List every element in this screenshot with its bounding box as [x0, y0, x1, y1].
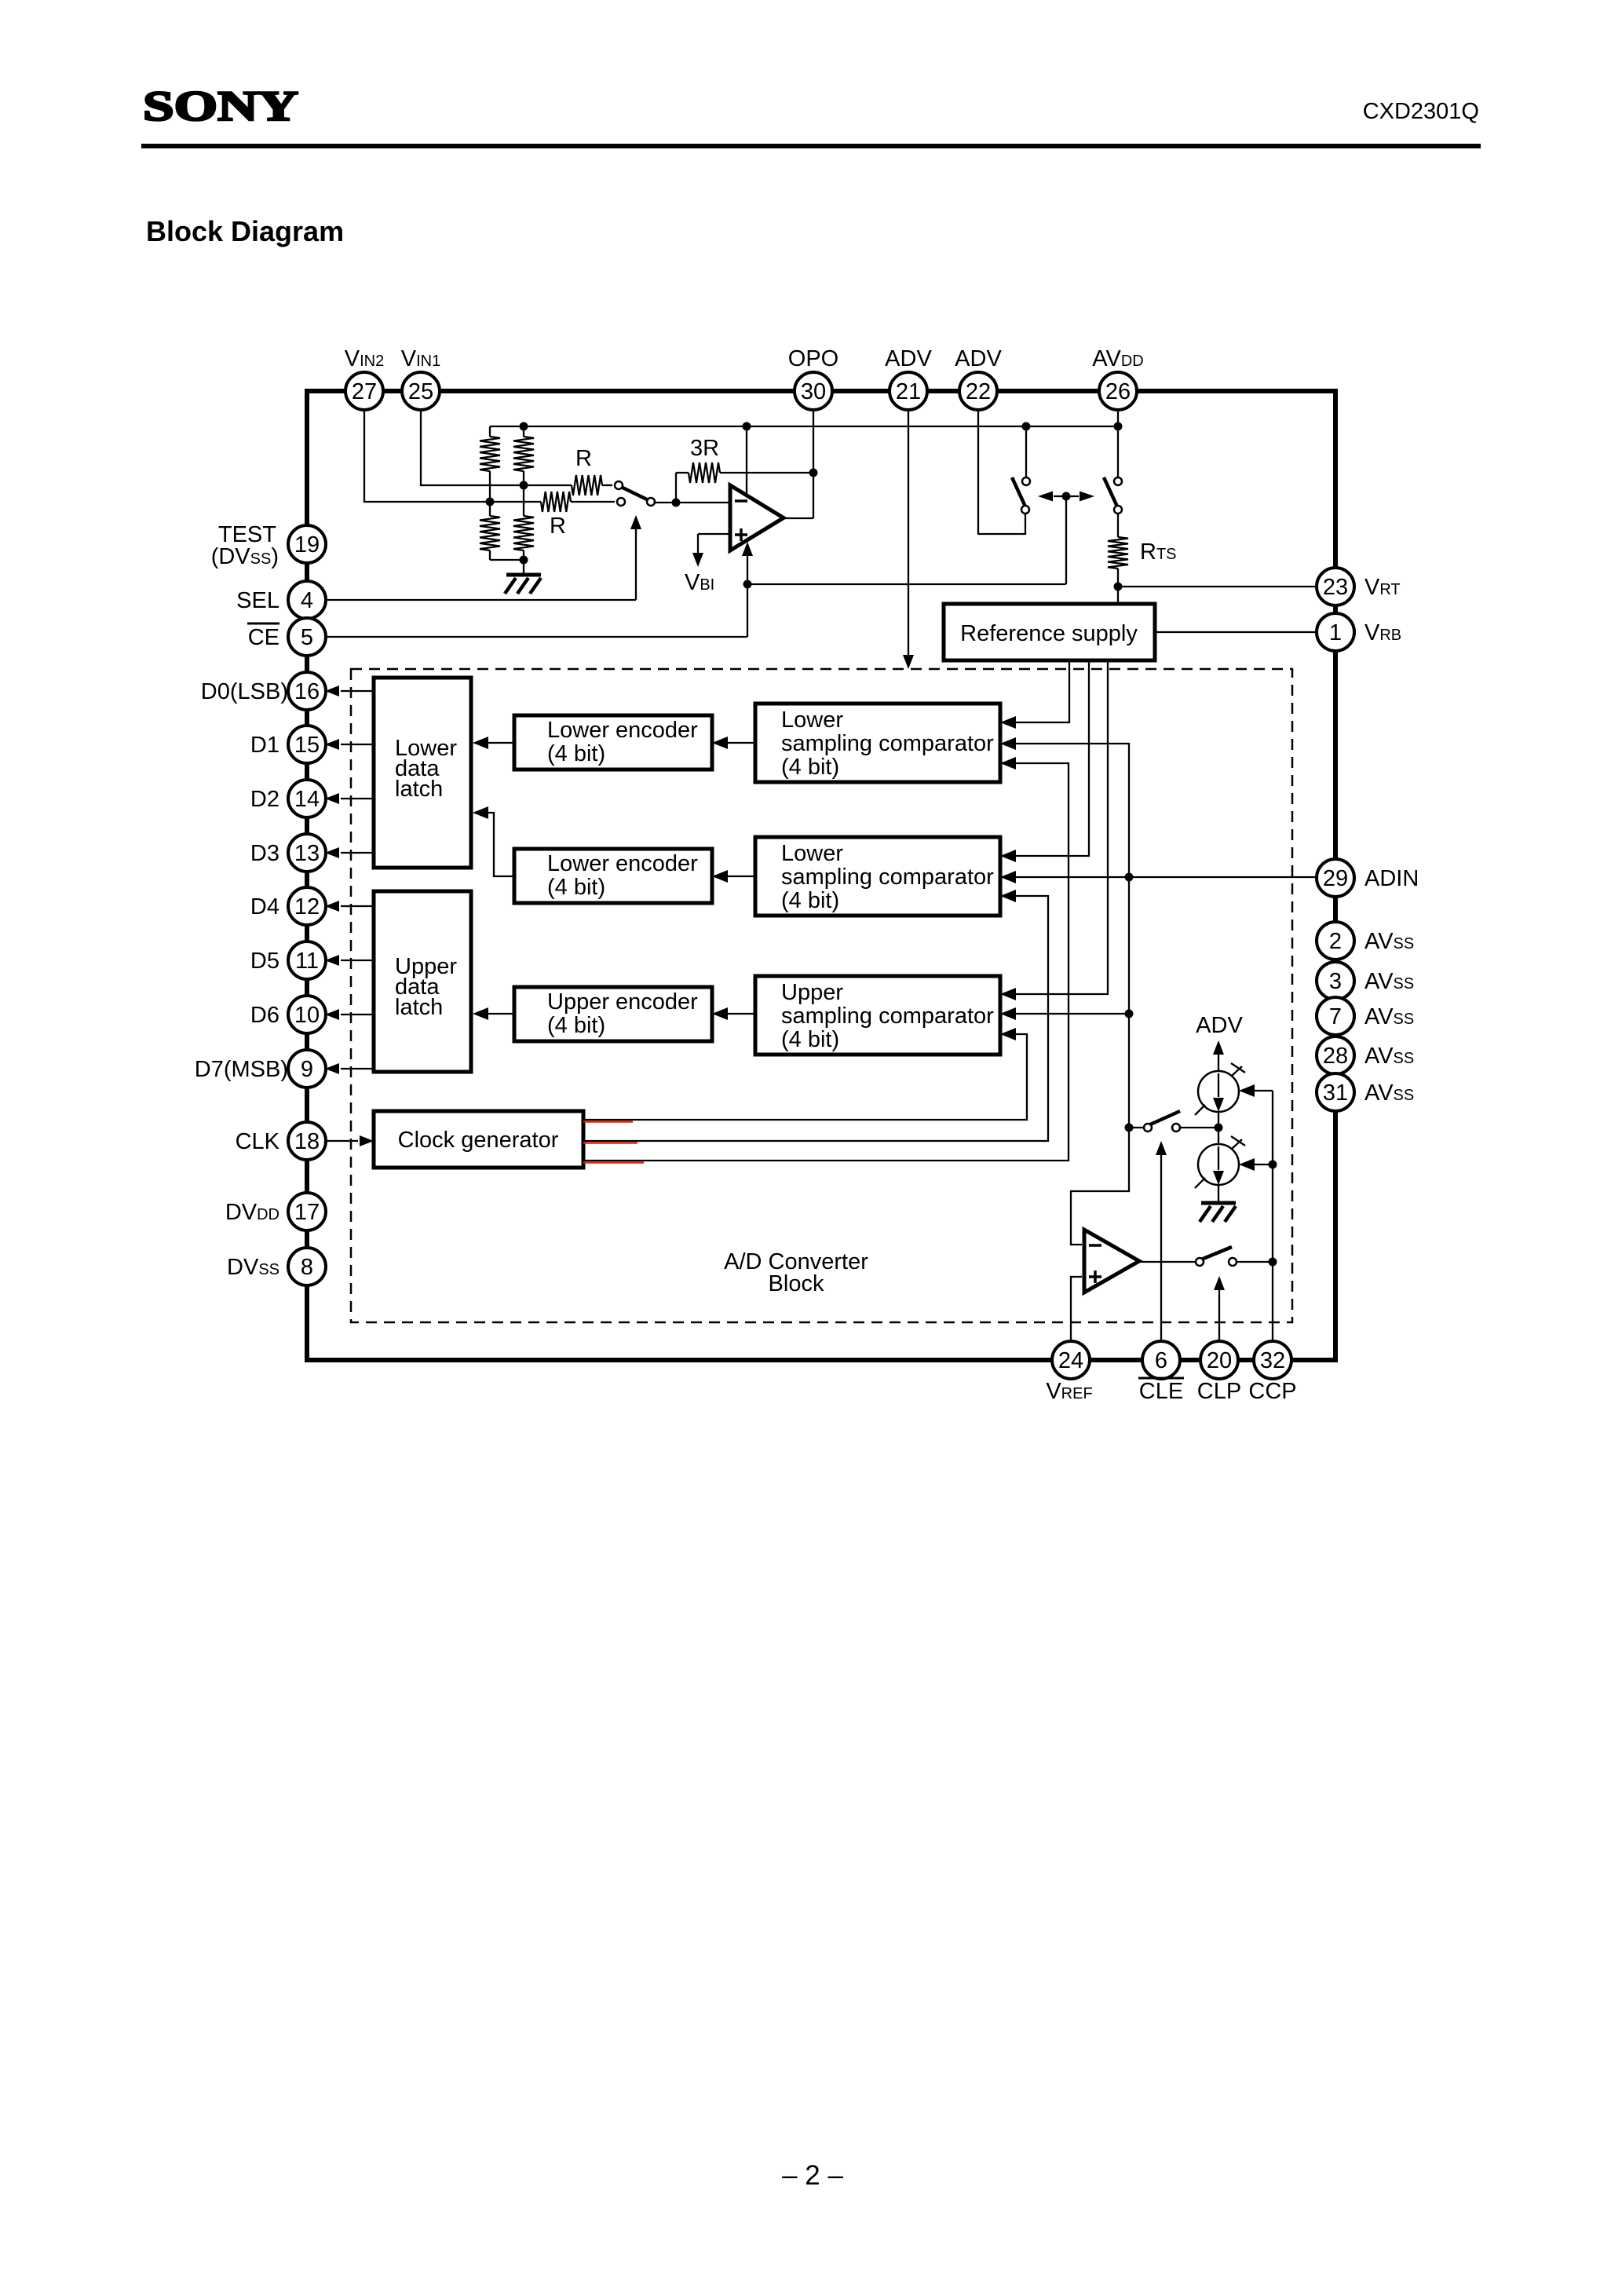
resistor 3R feedback: [676, 462, 813, 503]
pin 24 VREF: [1052, 1341, 1090, 1379]
red trace on clock line 2: [583, 1142, 637, 1144]
node: 3R feedback tap: [672, 499, 681, 507]
svg-text:Clock generator: Clock generator: [398, 1128, 559, 1153]
current source CS1: [1195, 1063, 1245, 1115]
svg-text:3R: 3R: [690, 436, 719, 461]
op-amp U2 (clamp): [1084, 1230, 1139, 1292]
node: ladder top right column: [520, 422, 528, 431]
svg-text:6: 6: [1155, 1348, 1167, 1373]
wire comparator2 to encoder2: [712, 870, 755, 883]
svg-text:21: 21: [896, 379, 921, 404]
pin 12 D4: [288, 887, 326, 925]
svg-text:(4 bit): (4 bit): [781, 1027, 839, 1052]
svg-text:2: 2: [1329, 929, 1342, 954]
clamp output switch SW5: [1196, 1247, 1273, 1266]
pin 16 D0: [288, 672, 326, 710]
node: clamp input: [1125, 1124, 1134, 1132]
pin 19 TEST: [288, 525, 326, 563]
wire upper data latch to pin D7: [325, 1063, 374, 1074]
pin 7 AVSS: [1317, 997, 1354, 1035]
wire pin18 CLK to clock generator: [326, 1135, 374, 1146]
node: VRT junction: [1114, 583, 1123, 591]
current source CS2: [1195, 1136, 1245, 1188]
Reference supply box: [944, 604, 1155, 660]
svg-text:Lower: Lower: [781, 841, 843, 866]
wire CLE pin6 control arrow: [1156, 1141, 1167, 1342]
pin 31 AVSS: [1317, 1073, 1354, 1111]
svg-text:5: 5: [301, 625, 313, 650]
node: CS2 control tap: [1269, 1161, 1277, 1169]
wire switch to op-amp inverting input: [655, 502, 730, 503]
svg-text:4: 4: [301, 588, 313, 613]
pin 32 CCP: [1254, 1341, 1291, 1379]
svg-text:19: 19: [294, 532, 320, 558]
node: OPO feedback junction: [809, 469, 818, 477]
svg-text:9: 9: [301, 1057, 313, 1082]
svg-text:24: 24: [1058, 1348, 1083, 1373]
svg-text:latch: latch: [395, 995, 443, 1020]
svg-text:12: 12: [294, 894, 320, 919]
svg-text:ADV: ADV: [955, 346, 1002, 371]
svg-text:Block Diagram: Block Diagram: [146, 215, 344, 247]
svg-text:(4 bit): (4 bit): [547, 741, 605, 766]
svg-text:20: 20: [1207, 1348, 1232, 1373]
svg-text:(4 bit): (4 bit): [781, 755, 839, 780]
pin 13 D3: [288, 834, 326, 872]
svg-text:D5: D5: [250, 949, 279, 974]
svg-text:CLE: CLE: [1139, 1379, 1183, 1404]
Lower data latch box: [374, 678, 471, 868]
svg-text:sampling comparator: sampling comparator: [781, 865, 994, 890]
svg-text:7: 7: [1329, 1004, 1342, 1029]
wire comparator1 to encoder1: [712, 737, 755, 749]
svg-text:sampling comparator: sampling comparator: [781, 731, 994, 756]
node: clamp output: [1269, 1258, 1277, 1267]
svg-text:(4 bit): (4 bit): [547, 875, 605, 900]
svg-text:Lower: Lower: [781, 707, 843, 733]
clock line 2 (to lower comparator 2): [583, 890, 1048, 1141]
wire reference output 2 to comparator2: [1000, 660, 1089, 862]
pin 4 SEL: [288, 581, 326, 619]
wire pin27 VIN2 to lower R input rail: [364, 410, 541, 502]
resistor ladder right column: [513, 426, 534, 575]
wire pin25 VIN1 to upper R input rail: [421, 410, 572, 485]
svg-text:Lower encoder: Lower encoder: [547, 718, 698, 743]
pin 5 CE: [288, 618, 326, 656]
wire CS2 to ground: [1218, 1185, 1219, 1203]
svg-text:1: 1: [1329, 620, 1342, 645]
svg-text:30: 30: [801, 379, 826, 404]
node: current source midpoint: [1215, 1124, 1223, 1132]
node: AVDD rail right end: [1114, 422, 1123, 431]
wire CS1 to CS2: [1218, 1112, 1219, 1144]
header rule: [141, 144, 1481, 148]
node: AVDD rail bias tap: [743, 422, 751, 431]
pin 10 D6: [288, 996, 326, 1033]
svg-text:Upper: Upper: [781, 980, 843, 1005]
wire reference output 1 to comparator1: [1000, 660, 1069, 729]
pin 3 AVSS: [1317, 962, 1354, 1000]
wire op-amp U1 output: [784, 517, 813, 519]
svg-text:ADV: ADV: [885, 346, 932, 371]
op-amp U1: [730, 485, 784, 550]
pin 14 D2: [288, 780, 326, 817]
wire comparator3 to encoder3: [712, 1007, 755, 1020]
pin 11 D5: [288, 941, 326, 979]
wire SEL pin4 to switch control: [326, 515, 641, 600]
wire CLP pin20 control arrow: [1214, 1276, 1225, 1342]
svg-text:27: 27: [352, 379, 377, 404]
pin 27 VIN2: [345, 372, 383, 410]
wire lower data latch to pin D3: [325, 847, 374, 858]
label TEST (DVSS): [211, 522, 279, 569]
label CE with overline: [247, 623, 279, 650]
Upper data latch box: [374, 891, 471, 1072]
svg-text:26: 26: [1105, 379, 1131, 404]
svg-text:8: 8: [301, 1255, 313, 1280]
wire encoder2 to lower data latch: [473, 806, 514, 876]
svg-text:18: 18: [294, 1129, 320, 1154]
wire encoder1 to lower data latch: [473, 737, 514, 749]
A/D converter block dashed boundary: [351, 669, 1292, 1322]
pin 20 CLP: [1200, 1341, 1238, 1379]
pin 30 OPO: [795, 372, 832, 410]
resistor R (lower, VIN2 path): [541, 492, 615, 512]
svg-text:– 2 –: – 2 –: [782, 2160, 843, 2191]
pin 29 ADIN: [1317, 859, 1354, 897]
wire reference supply to pin1 VRB: [1155, 631, 1317, 633]
wire clamp op-amp inverting input: [1071, 1128, 1129, 1245]
ADIN distribution vertical: [1000, 737, 1129, 1128]
node: SW2 top rail tap: [1022, 422, 1031, 431]
svg-text:(4 bit): (4 bit): [781, 888, 839, 913]
clock line 1 (to upper comparator): [583, 1028, 1027, 1120]
pin 1 VRB: [1317, 613, 1354, 651]
svg-text:Lower encoder: Lower encoder: [547, 851, 698, 876]
wire ADV pin21 into A/D block: [903, 410, 914, 669]
resistor R (upper, VIN1 path): [572, 475, 612, 495]
svg-text:D0(LSB): D0(LSB): [201, 679, 288, 704]
pin 25 VIN1: [402, 372, 440, 410]
pin 18 CLK: [288, 1122, 326, 1160]
wire lower data latch to pin D1: [325, 739, 374, 750]
svg-text:(4 bit): (4 bit): [547, 1013, 605, 1038]
svg-text:D4: D4: [250, 894, 279, 919]
svg-text:D3: D3: [250, 841, 279, 866]
wire pin29 ADIN to comparator2: [1000, 871, 1317, 883]
wire CS2 control input: [1239, 1158, 1273, 1171]
svg-text:SONY: SONY: [143, 82, 298, 130]
ground under CS2: [1200, 1203, 1236, 1222]
node: CE branch: [743, 580, 752, 589]
wire lower data latch to pin D2: [325, 793, 374, 804]
Lower encoder 2 box: [514, 849, 712, 903]
svg-text:Reference supply: Reference supply: [960, 621, 1138, 646]
svg-text:32: 32: [1260, 1348, 1285, 1373]
node: ADIN junction: [1125, 873, 1134, 882]
double-headed arrow (ganged switches): [1038, 492, 1094, 502]
svg-text:16: 16: [294, 679, 320, 704]
wire lower data latch to pin D0: [325, 686, 374, 696]
svg-text:D6: D6: [250, 1003, 279, 1028]
pin 15 D1: [288, 726, 326, 763]
svg-text:CE: CE: [248, 625, 279, 650]
svg-text:28: 28: [1323, 1044, 1348, 1069]
svg-text:22: 22: [966, 379, 991, 404]
power switch SW2 (ADV side): [1012, 426, 1030, 514]
svg-text:ADIN: ADIN: [1364, 866, 1419, 891]
svg-text:OPO: OPO: [788, 346, 838, 371]
svg-text:ADV: ADV: [1196, 1013, 1243, 1038]
svg-text:CXD2301Q: CXD2301Q: [1363, 99, 1479, 124]
wire encoder3 to upper data latch: [473, 1007, 514, 1020]
ADV output arrow above CS1: [1213, 1040, 1224, 1071]
pin 28 AVSS: [1317, 1036, 1354, 1074]
power switch SW3 (AVDD side) with RTS: [1104, 410, 1122, 537]
svg-text:CCP: CCP: [1248, 1379, 1296, 1404]
pin 8 DVSS: [288, 1248, 326, 1285]
node: VIN2 join left column: [486, 498, 495, 506]
wire CE pin5 to bias control: [326, 496, 1066, 637]
svg-text:D7(MSB): D7(MSB): [195, 1057, 288, 1082]
resistor ladder left column: [480, 426, 524, 560]
node: VIN1 join right column: [520, 481, 528, 490]
svg-text:D1: D1: [250, 733, 279, 758]
red trace on clock line 1: [583, 1121, 633, 1123]
pin 2 AVSS: [1317, 922, 1354, 960]
Lower encoder 1 box: [514, 715, 712, 770]
pin 6 CLE: [1142, 1341, 1180, 1379]
wire pin24 VREF to non-inverting input: [1071, 1277, 1082, 1342]
svg-text:Block: Block: [769, 1271, 824, 1296]
clamp switch SW4: [1133, 1111, 1218, 1132]
label A/D Converter Block: [724, 1249, 868, 1296]
red trace on clock line 3: [583, 1161, 644, 1164]
svg-text:10: 10: [294, 1003, 320, 1028]
svg-text:23: 23: [1323, 575, 1348, 600]
IC package outline: [307, 391, 1335, 1360]
svg-text:Upper encoder: Upper encoder: [547, 989, 698, 1015]
svg-text:14: 14: [294, 787, 320, 812]
svg-text:15: 15: [294, 733, 320, 758]
pin 23 VRT: [1317, 568, 1354, 605]
wire CCP pin32 vertical: [1272, 1091, 1273, 1342]
wire U1 non-inverting input to VBI: [692, 534, 730, 567]
svg-text:R: R: [575, 446, 592, 471]
ground under resistor ladder: [505, 575, 541, 594]
svg-text:D2: D2: [250, 787, 279, 812]
svg-text:CLK: CLK: [236, 1129, 280, 1154]
svg-text:31: 31: [1323, 1080, 1348, 1106]
Upper sampling comparator box: [755, 976, 1000, 1055]
svg-text:25: 25: [408, 379, 433, 404]
Clock generator box: [374, 1111, 583, 1168]
wire CS1 control input: [1239, 1084, 1273, 1097]
svg-text:R: R: [550, 514, 566, 539]
input select switch SW1: [615, 481, 655, 506]
Lower sampling comparator 1 box: [755, 704, 1000, 782]
svg-text:11: 11: [295, 949, 319, 974]
wire U2 output to clamp switch SW5: [1139, 1261, 1196, 1263]
pin 9 D7: [288, 1050, 326, 1088]
svg-text:29: 29: [1323, 866, 1348, 891]
svg-text:13: 13: [294, 841, 320, 866]
wire upper data latch to pin D6: [325, 1009, 374, 1020]
Lower sampling comparator 2 box: [755, 837, 1000, 916]
svg-text:sampling comparator: sampling comparator: [781, 1004, 994, 1029]
AVDD top rail: [490, 426, 1118, 427]
node: ADIN branch comparator3: [1125, 1010, 1134, 1018]
wire ADV pin22 to power switch: [978, 410, 1025, 534]
pin 17 DVDD: [288, 1193, 326, 1230]
wire pin30 OPO vertical: [813, 410, 814, 518]
wire reference output 3 to comparator3: [1000, 660, 1108, 1000]
svg-text:SEL: SEL: [236, 588, 279, 613]
pin 22 ADV: [959, 372, 997, 410]
wire upper data latch to pin D4: [325, 901, 374, 912]
svg-text:3: 3: [1329, 969, 1342, 994]
svg-text:CLP: CLP: [1197, 1379, 1241, 1404]
pin 26 AVDD: [1099, 372, 1137, 410]
wire ADIN branch to comparator3: [1000, 1007, 1129, 1020]
wire AVDD rail to U1 bias: [746, 426, 747, 496]
label CLE with overline: [1138, 1378, 1184, 1404]
node: ladder bottom join: [520, 556, 528, 565]
svg-text:17: 17: [294, 1200, 320, 1225]
wire upper data latch to pin D5: [325, 955, 374, 966]
wire to pin23 VRT: [1118, 586, 1317, 587]
node: power switch link: [1062, 492, 1071, 501]
Upper encoder box: [514, 987, 712, 1041]
svg-text:latch: latch: [395, 777, 443, 802]
resistor RTS: [1108, 537, 1128, 604]
clock line 3 (to lower comparator 1): [583, 757, 1069, 1161]
pin 21 ADV: [890, 372, 927, 410]
